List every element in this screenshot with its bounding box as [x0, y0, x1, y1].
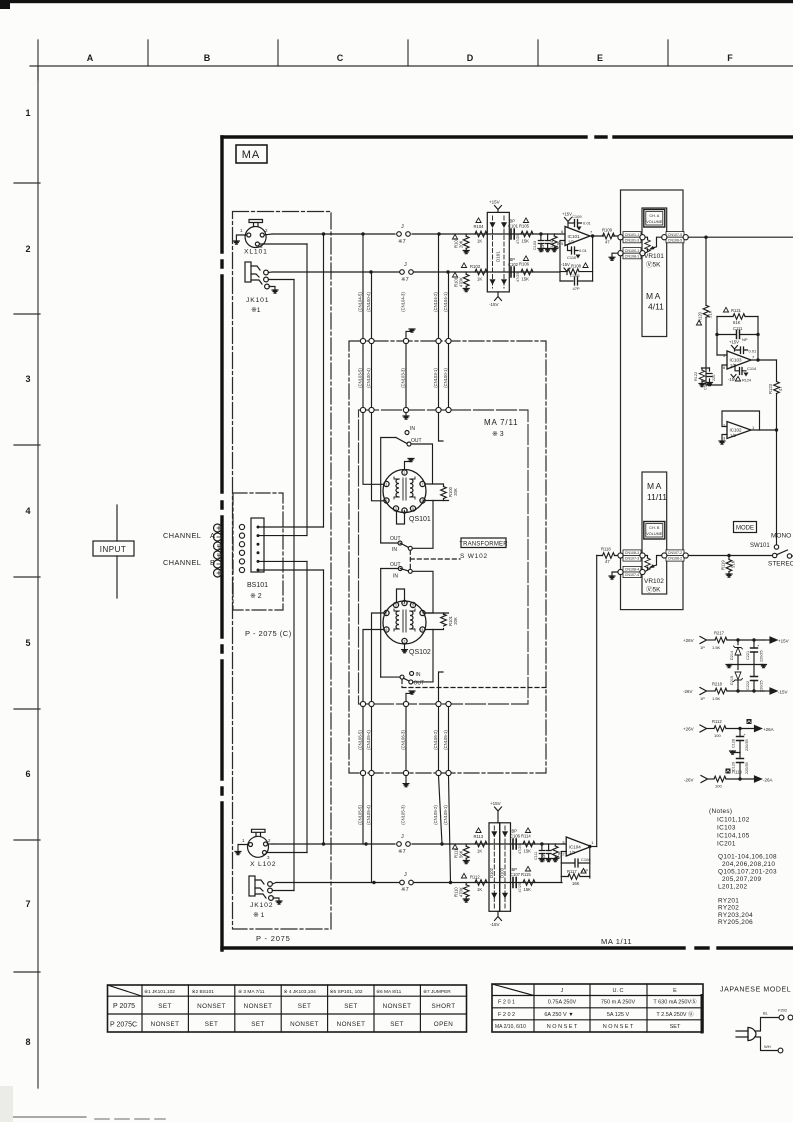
mains plug	[748, 1028, 756, 1041]
svg-text:※7: ※7	[401, 276, 409, 283]
IC103 inputs	[717, 355, 727, 365]
svg-text:※7: ※7	[398, 848, 406, 855]
XL102 XLR connector	[248, 829, 269, 857]
connector circles row y704	[360, 701, 451, 706]
JK102 jack	[249, 876, 273, 900]
left ticks	[14, 183, 40, 972]
svg-text:2: 2	[268, 838, 271, 843]
svg-text:R112: R112	[712, 719, 722, 724]
svg-text:-15V: -15V	[561, 262, 570, 267]
input terminal circles	[214, 524, 222, 577]
svg-text:(CN104-3): (CN104-3)	[401, 292, 406, 312]
resistor R217 1.5K	[715, 637, 727, 643]
svg-text:47: 47	[605, 559, 610, 564]
svg-text:P - 2075: P - 2075	[256, 934, 291, 943]
grid letters	[87, 53, 734, 63]
wire pin8 to riser x448.5	[425, 500, 448, 502]
MA 7/11 outer dash-dot rect	[349, 341, 546, 773]
svg-text:20K: 20K	[459, 240, 464, 248]
svg-text:8: 8	[422, 628, 424, 632]
resistor R102 20K shunt	[465, 234, 467, 236]
svg-text:NONSET: NONSET	[290, 1021, 319, 1028]
page edge shading bottom-left	[0, 1086, 13, 1122]
svg-text:51K: 51K	[708, 310, 713, 318]
svg-text:1/2: 1/2	[568, 240, 574, 245]
QS102 windings	[394, 609, 415, 632]
svg-text:※ 4 JK103,104: ※ 4 JK103,104	[284, 989, 317, 995]
BS101 dashed box	[233, 493, 283, 610]
svg-text:+15V: +15V	[490, 801, 501, 806]
D102 D103 diode array dashed boxes	[489, 823, 500, 912]
svg-text:IC103: IC103	[730, 358, 743, 363]
+15V output arrow	[764, 639, 770, 641]
svg-text:R112: R112	[470, 875, 480, 880]
svg-text:NONSET: NONSET	[244, 1003, 273, 1010]
svg-text:R105: R105	[519, 224, 530, 229]
svg-text:R122: R122	[694, 372, 698, 381]
SW102 section1 lower switch	[398, 541, 402, 545]
resistor R119 51K	[728, 556, 730, 560]
wire channel A hot y=234	[272, 233, 565, 235]
svg-text:CN108-4: CN108-4	[625, 568, 639, 572]
XL101 pin1 ground	[236, 235, 246, 241]
svg-text:C114: C114	[747, 366, 757, 371]
svg-text:J: J	[561, 988, 564, 994]
svg-text:CHANNEL: CHANNEL	[163, 531, 201, 540]
svg-text:※7 JUMPER: ※7 JUMPER	[423, 989, 451, 995]
svg-text:D101: D101	[496, 251, 501, 262]
CH.A VOLUME box	[644, 210, 665, 228]
svg-text:※5 SP101, 102: ※5 SP101, 102	[330, 989, 363, 995]
svg-text:JK101: JK101	[246, 297, 269, 304]
BS101 left circles	[239, 524, 244, 572]
svg-text:IC103: IC103	[717, 825, 736, 832]
svg-text:0.75A 250V: 0.75A 250V	[548, 1000, 577, 1006]
-15V output arrow	[764, 690, 770, 692]
resistor R118 47	[597, 555, 618, 557]
riser from IC104 output up to VR102	[596, 556, 598, 847]
svg-text:-15V: -15V	[489, 302, 499, 307]
svg-text:SET: SET	[298, 1003, 311, 1010]
svg-text:15K: 15K	[524, 849, 532, 854]
board border bottom	[222, 946, 793, 949]
svg-text:47/25: 47/25	[516, 272, 520, 282]
resistor R114 15K	[523, 841, 535, 847]
svg-text:15K: 15K	[522, 277, 530, 282]
wire channel A low y=272	[272, 271, 560, 273]
svg-text:OUT: OUT	[411, 438, 422, 444]
svg-text:+15V: +15V	[489, 200, 500, 205]
wire row410 x363 to QS101 pin1	[363, 413, 384, 485]
svg-text:(CN105-1): (CN105-1)	[443, 805, 448, 825]
C111 NP cap row	[717, 317, 758, 361]
wire XL101 pin2 to channel A hot	[264, 234, 272, 235]
svg-text:N O N S E T: N O N S E T	[547, 1024, 578, 1030]
svg-text:SET: SET	[344, 1003, 357, 1010]
svg-text:(CN104-5): (CN104-5)	[358, 292, 363, 312]
svg-text:1K: 1K	[477, 277, 482, 282]
output wire to R109	[590, 235, 621, 237]
svg-text:15K: 15K	[524, 887, 532, 892]
svg-text:1P: 1P	[700, 696, 705, 701]
QS102 bottom pin ground	[404, 644, 406, 650]
svg-text:(CN106-5): (CN106-5)	[358, 730, 363, 750]
svg-text:F202: F202	[778, 1008, 788, 1013]
svg-text:(Notes): (Notes)	[709, 808, 732, 815]
svg-text:2: 2	[723, 423, 726, 428]
transformer QS102	[383, 600, 426, 644]
svg-text:BS101: BS101	[247, 582, 268, 589]
wire JK102 ring right	[272, 890, 294, 892]
svg-text:T 630 mA 250VⓈ: T 630 mA 250VⓈ	[653, 998, 697, 1006]
svg-text:R217: R217	[714, 631, 725, 636]
svg-text:5: 5	[412, 507, 414, 511]
svg-text:7: 7	[590, 230, 593, 235]
zener D215	[737, 665, 739, 692]
svg-text:220/35: 220/35	[745, 762, 749, 774]
svg-text:QS102: QS102	[409, 649, 431, 656]
resistor R110 470K shunt (low)	[465, 883, 467, 885]
board border top	[222, 135, 793, 138]
svg-text:J: J	[404, 262, 407, 268]
page top edge bar	[0, 0, 793, 3]
P-2075 dash-dot outline	[233, 212, 332, 930]
svg-text:C222: C222	[746, 681, 750, 690]
svg-text:※ 3: ※ 3	[492, 431, 504, 438]
jumper J x7 on low	[400, 270, 414, 275]
svg-text:205,207,209: 205,207,209	[722, 876, 761, 883]
svg-text:D: D	[467, 53, 474, 63]
svg-text:100: 100	[715, 784, 722, 789]
svg-text:1: 1	[752, 425, 755, 430]
svg-text:(CN100-4): (CN100-4)	[366, 368, 371, 388]
svg-text:(CN100-1): (CN100-1)	[443, 368, 448, 388]
svg-text:VOLUME: VOLUME	[646, 532, 663, 536]
svg-text:3: 3	[25, 374, 30, 384]
svg-text:2: 2	[265, 228, 268, 233]
svg-text:※ 3 MA 7/11: ※ 3 MA 7/11	[238, 989, 265, 995]
svg-text:C103: C103	[533, 241, 537, 250]
svg-text:1K: 1K	[477, 849, 482, 854]
IC102 output join	[751, 429, 777, 431]
svg-text:R104: R104	[474, 224, 485, 229]
resistor R106 15K (low)	[521, 269, 533, 275]
svg-text:3: 3	[395, 604, 397, 608]
BS101 connector body	[251, 518, 264, 572]
svg-text:6A 250 V ▼: 6A 250 V ▼	[544, 1012, 573, 1018]
resistor R104 1K series	[475, 231, 487, 237]
svg-text:B: B	[204, 53, 211, 63]
wire BS101 pin1 to riser	[258, 526, 324, 528]
wires between connector rows bottom	[363, 707, 449, 771]
svg-text:2: 2	[404, 471, 406, 475]
svg-text:R114: R114	[521, 834, 531, 839]
resistor R115 15K (low)	[523, 880, 535, 886]
svg-text:47/25: 47/25	[516, 234, 520, 244]
svg-text:R123: R123	[768, 383, 773, 394]
svg-text:(CN104-2): (CN104-2)	[433, 292, 438, 312]
svg-text:CN107-4: CN107-4	[625, 573, 639, 577]
svg-text:0.01: 0.01	[579, 248, 588, 253]
svg-text:IN: IN	[393, 574, 398, 580]
svg-text:C105: C105	[570, 273, 580, 278]
wire pin8b to riser	[425, 612, 448, 614]
VR102 potentiometer	[645, 556, 663, 572]
svg-text:1K: 1K	[477, 887, 482, 892]
svg-text:SET: SET	[205, 1021, 218, 1028]
svg-text:CN107-2: CN107-2	[668, 551, 682, 555]
wire channel B low y=882.5	[276, 882, 562, 884]
svg-text:1: 1	[386, 612, 388, 616]
svg-text:E: E	[673, 988, 677, 994]
svg-text:1: 1	[591, 840, 594, 845]
board border left	[220, 137, 223, 950]
svg-text:OUT: OUT	[390, 562, 401, 568]
wire OUT contact right down to pin7	[411, 444, 433, 484]
resistor R120 51K	[705, 237, 707, 305]
wire BS101 pin2 to riser	[258, 535, 307, 537]
wire riser x307 XLR pin3 to BS101 pin2/pin5	[306, 244, 308, 853]
ground at CN100-1	[612, 253, 618, 257]
+26A output arrow	[755, 726, 762, 732]
svg-text:MODE: MODE	[736, 526, 754, 532]
BS101 pins	[257, 526, 260, 572]
svg-text:C128: C128	[732, 739, 736, 748]
svg-text:RY202: RY202	[718, 905, 739, 912]
CN rotated labels bottom rows	[358, 730, 449, 825]
svg-text:+15V: +15V	[729, 340, 739, 345]
ground stub row341 center	[406, 331, 412, 338]
svg-text:220/35: 220/35	[745, 739, 749, 751]
svg-text:IC201: IC201	[717, 841, 736, 848]
svg-text:3: 3	[723, 436, 726, 441]
svg-text:-15V: -15V	[490, 922, 500, 927]
svg-text:WH: WH	[764, 1044, 771, 1049]
QS102 top key tab	[397, 589, 405, 602]
svg-text:4/11: 4/11	[648, 302, 664, 312]
jumper J x7 on B hot	[397, 842, 411, 847]
capacitor BP C106	[513, 839, 516, 849]
svg-text:MA 7/11: MA 7/11	[484, 418, 518, 427]
MA 7/11 inner board rect	[359, 410, 529, 704]
capacitor C222	[753, 665, 755, 692]
svg-text:(CN106-3): (CN106-3)	[401, 730, 406, 750]
svg-text:(CN103-5): (CN103-5)	[358, 368, 363, 388]
svg-text:0.01: 0.01	[583, 221, 592, 226]
svg-text:CN106-5: CN106-5	[668, 238, 682, 242]
QS101 bottom key tab	[397, 511, 405, 524]
wire lower switch left	[381, 542, 398, 544]
grid ticks top	[38, 40, 668, 80]
svg-text:220/25: 220/25	[760, 650, 764, 662]
svg-text:SHORT: SHORT	[432, 1003, 456, 1010]
CN107 connector labels right	[666, 232, 684, 243]
R122 220 and C113 0.1 cluster	[702, 368, 710, 383]
capacitor BP C107 (low)	[513, 878, 516, 888]
svg-text:470P: 470P	[541, 243, 545, 252]
svg-text:470P: 470P	[542, 853, 546, 862]
svg-text:IN: IN	[410, 426, 415, 432]
svg-text:OUT: OUT	[390, 536, 401, 542]
left frame line	[37, 66, 39, 1088]
plug wires	[756, 1018, 779, 1032]
resistor R112 100	[714, 726, 726, 732]
row numbers	[25, 108, 30, 1047]
-26A output arrow	[755, 776, 762, 782]
IC103 feedback R121 51K	[717, 316, 758, 318]
svg-text:0.01: 0.01	[749, 349, 758, 354]
svg-text:SW101: SW101	[750, 543, 770, 549]
svg-text:IC101: IC101	[568, 234, 581, 239]
svg-text:CN101-1: CN101-1	[625, 233, 639, 237]
wire lower switch2 left	[381, 676, 400, 678]
svg-text:+: +	[757, 643, 760, 648]
svg-text:QS101: QS101	[409, 516, 431, 523]
wire upper switch2 left	[381, 568, 399, 570]
wires from row773 down to chB wires	[363, 776, 451, 883]
XL102 pin1 ground	[238, 845, 249, 852]
svg-text:(CN105-5): (CN105-5)	[358, 805, 363, 825]
diodes in D101	[490, 223, 506, 284]
svg-text:TRANSFORMER: TRANSFORMER	[459, 542, 508, 548]
svg-text:CN106-2: CN106-2	[668, 557, 682, 561]
svg-text:R120: R120	[698, 311, 703, 322]
svg-text:(CN105-2): (CN105-2)	[433, 805, 438, 825]
VR101 potentiometer	[645, 237, 663, 253]
svg-text:(CN103-1): (CN103-1)	[433, 368, 438, 388]
svg-text:1: 1	[240, 228, 243, 233]
svg-text:NONSET: NONSET	[337, 1021, 366, 1028]
svg-text:MA: MA	[242, 149, 261, 161]
svg-text:C107: C107	[510, 872, 521, 877]
svg-text:7: 7	[422, 483, 424, 487]
svg-text:16K: 16K	[572, 881, 580, 886]
svg-text:C: C	[337, 53, 344, 63]
svg-text:C106: C106	[510, 833, 521, 838]
svg-text:JAPANESE MODEL: JAPANESE MODEL	[720, 987, 791, 994]
flameproof mark	[747, 719, 752, 724]
JK102 sleeve ground	[273, 898, 279, 901]
svg-text:6: 6	[25, 769, 30, 779]
svg-text:R117: R117	[567, 869, 577, 874]
svg-text:L201,202: L201,202	[718, 884, 748, 891]
wire row410 x371.5 to QS101 pin6	[372, 413, 384, 501]
svg-text:※ 1: ※ 1	[253, 912, 265, 919]
ground mid	[733, 751, 741, 753]
svg-text:SET: SET	[670, 1024, 681, 1030]
resistor R101 470K shunt (low)	[465, 272, 467, 274]
svg-text:IN: IN	[416, 672, 421, 678]
jumper J x7 on B low	[400, 880, 414, 885]
svg-text:N O N S E T: N O N S E T	[603, 1024, 634, 1030]
svg-text:Ⓥ5K: Ⓥ5K	[646, 586, 661, 594]
svg-text:Q105,107,201-203: Q105,107,201-203	[718, 869, 777, 876]
svg-text:X L102: X L102	[250, 861, 276, 868]
svg-text:1: 1	[242, 838, 245, 843]
svg-text:6: 6	[723, 365, 726, 370]
svg-text:(CN105-4): (CN105-4)	[366, 730, 371, 750]
svg-text:(CN100-4): (CN100-4)	[366, 292, 371, 312]
svg-text:※1 JK101,102: ※1 JK101,102	[144, 989, 175, 995]
svg-text:D215: D215	[730, 676, 734, 685]
MODE box	[734, 522, 757, 533]
svg-text:S W102: S W102	[460, 553, 488, 560]
JK101 sleeve ground	[269, 287, 275, 290]
JK101 jack	[245, 262, 269, 289]
svg-text:NP: NP	[742, 337, 748, 342]
svg-text:CN100-1: CN100-1	[625, 249, 639, 253]
svg-text:CH. B: CH. B	[649, 526, 660, 530]
wire OUT2 contact right up to pin	[413, 630, 433, 682]
resistor shunt 4.7K before IC104	[554, 844, 556, 846]
wires from chA wires down to row341	[363, 234, 449, 338]
svg-text:C101: C101	[508, 224, 519, 229]
C114 -15V below IC103	[735, 365, 746, 371]
svg-text:CN108-1: CN108-1	[625, 254, 639, 258]
svg-text:220: 220	[712, 375, 716, 381]
svg-text:56K: 56K	[459, 850, 464, 858]
svg-text:(CN106-2): (CN106-2)	[433, 730, 438, 750]
wires between connector rows top	[363, 344, 449, 408]
svg-text:100: 100	[714, 733, 721, 738]
mid ground row	[729, 664, 764, 666]
svg-text:CN107-5: CN107-5	[668, 233, 682, 237]
svg-text:C102: C102	[508, 262, 519, 267]
svg-text:1: 1	[386, 483, 388, 487]
svg-text:8: 8	[25, 1037, 30, 1047]
svg-text:MONO: MONO	[771, 533, 791, 540]
capacitor C128	[739, 729, 741, 753]
resistor R113 100	[714, 776, 726, 782]
svg-text:C110: C110	[567, 255, 577, 260]
svg-text:4: 4	[25, 506, 30, 516]
svg-text:15K: 15K	[522, 239, 530, 244]
svg-text:6: 6	[386, 628, 388, 632]
svg-text:51K: 51K	[731, 560, 736, 568]
svg-text:C111: C111	[733, 326, 743, 331]
svg-text:R119: R119	[721, 560, 726, 570]
capacitor C221	[753, 640, 755, 665]
svg-text:SET: SET	[251, 1021, 264, 1028]
wire BS101 pin5 to riser	[258, 560, 307, 562]
svg-text:NONSET: NONSET	[197, 1003, 226, 1010]
op-amp IC102 block	[722, 411, 760, 430]
SW102 linkage dashes lower	[402, 680, 546, 688]
svg-text:IC104: IC104	[569, 845, 582, 850]
caps to ground after R105	[539, 232, 542, 235]
svg-text:MA 1/11: MA 1/11	[601, 937, 632, 946]
MA 11/11 inner box	[642, 472, 667, 594]
svg-text:470K: 470K	[459, 277, 464, 287]
svg-text:D214: D214	[730, 651, 734, 660]
wire JK101 tip to channel A low	[268, 271, 272, 274]
svg-text:7: 7	[25, 899, 30, 909]
svg-text:IC102: IC102	[730, 428, 743, 433]
caps to ground after R114	[540, 842, 543, 845]
svg-text:R118: R118	[601, 547, 611, 552]
wire to mode switch	[688, 555, 774, 557]
svg-text:MA: MA	[647, 481, 663, 491]
svg-text:CN101-3: CN101-3	[625, 238, 639, 242]
svg-text:※ 2: ※ 2	[250, 593, 262, 600]
svg-text:J: J	[401, 224, 404, 230]
wire XL101 pin3 right	[259, 243, 307, 245]
svg-text:(CN105-1): (CN105-1)	[443, 730, 448, 750]
wire JK102 tip to channel B low	[272, 883, 276, 885]
QS101 pin2 ground stub	[405, 459, 412, 470]
svg-text:C111: C111	[534, 851, 538, 860]
svg-text:1/2: 1/2	[569, 850, 575, 855]
